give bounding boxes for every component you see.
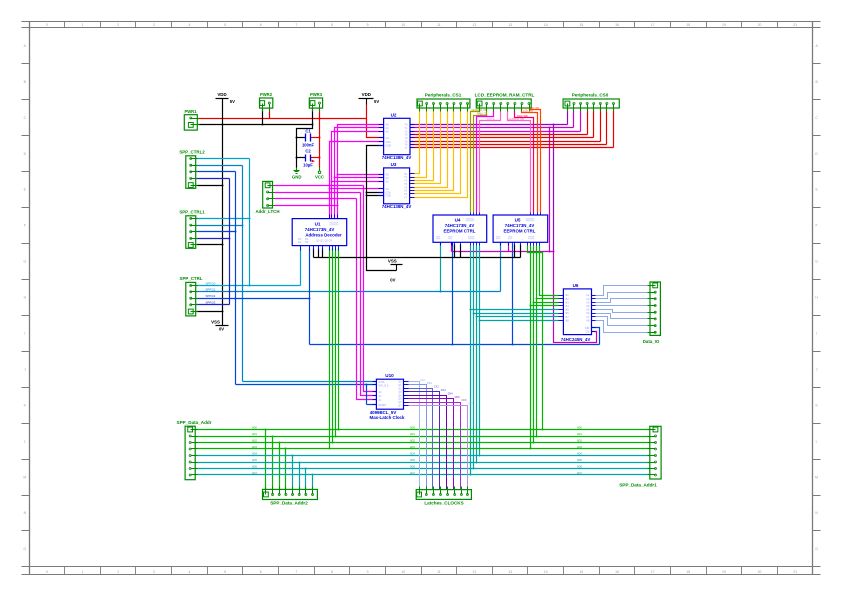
- svg-text:Data_IO: Data_IO: [643, 339, 660, 344]
- svg-text:8: 8: [331, 570, 333, 574]
- svg-text:SPPCl3: SPPCl3: [206, 301, 216, 305]
- svg-text:9: 9: [367, 23, 369, 27]
- svg-text:12: 12: [473, 570, 477, 574]
- svg-text:11: 11: [437, 570, 441, 574]
- svg-text:U1: U1: [315, 222, 321, 227]
- svg-text:F: F: [816, 224, 818, 228]
- svg-text:C1: C1: [305, 128, 311, 133]
- power VDD right: [359, 92, 380, 105]
- wire purple row Y0: [411, 109, 568, 252]
- op-amp U1 74HC173N_4V Address Decoder: [292, 215, 347, 251]
- svg-text:SPP_Data_Addr1: SPP_Data_Addr1: [619, 483, 657, 488]
- wire pink LCD pin4: [480, 109, 501, 213]
- svg-text:AD6: AD6: [410, 466, 415, 469]
- svg-text:D3: D3: [305, 240, 309, 244]
- wire teal U4 data verticals: [470, 246, 559, 476]
- wire crimson LCD pin6: [515, 109, 534, 213]
- svg-text:AD5: AD5: [577, 459, 582, 462]
- svg-text:▒▒▒▒: ▒▒▒▒: [466, 218, 475, 222]
- svg-text:74HC245N_4V: 74HC245N_4V: [561, 337, 591, 342]
- svg-text:12: 12: [473, 23, 477, 27]
- svg-text:LCD_RS: LCD_RS: [530, 107, 540, 110]
- svg-text:74HC173N_4V: 74HC173N_4V: [445, 223, 475, 228]
- svg-text:AD7: AD7: [577, 472, 582, 475]
- svg-text:21: 21: [793, 23, 797, 27]
- wire PWR3 black leg: [312, 109, 314, 125]
- connector PWR2: [260, 92, 273, 111]
- svg-text:SPPCl0: SPPCl0: [206, 281, 216, 285]
- svg-text:G: G: [23, 260, 26, 264]
- svg-text:G1: G1: [386, 136, 390, 140]
- svg-text:VSS: VSS: [211, 320, 220, 325]
- wire magenta row Y2: [411, 109, 581, 132]
- svg-text:G2B: G2B: [386, 194, 391, 198]
- svg-text:SPP_Data_Addr: SPP_Data_Addr: [177, 420, 212, 425]
- svg-text:U4: U4: [455, 218, 461, 223]
- svg-text:74HC173N_4V: 74HC173N_4V: [305, 227, 335, 232]
- decoder U2 74HC138N_4V: [379, 112, 415, 160]
- svg-text:F: F: [24, 224, 26, 228]
- svg-text:100nF: 100nF: [302, 143, 315, 148]
- capacitor C1 100nF: [302, 128, 315, 147]
- svg-text:21: 21: [793, 570, 797, 574]
- svg-text:AD2: AD2: [577, 440, 582, 443]
- svg-text:B5: B5: [566, 308, 570, 312]
- svg-text:AD0: AD0: [252, 427, 257, 430]
- connector SPP_Data_Addr1: [619, 426, 661, 487]
- wire black U2 U3 enable: [366, 146, 384, 259]
- connector Data_IO: [643, 282, 661, 344]
- connector SPP_CTRL2: [179, 149, 205, 188]
- svg-text:EEPROM_WR: EEPROM_WR: [509, 118, 525, 121]
- svg-text:U5: U5: [515, 218, 521, 223]
- svg-text:LCD_CS: LCD_CS: [478, 114, 488, 117]
- svg-text:SPPCl1: SPPCl1: [206, 288, 216, 292]
- svg-text:LCD_RW: LCD_RW: [523, 110, 534, 113]
- svg-text:B1: B1: [566, 293, 570, 297]
- svg-text:AD6: AD6: [577, 466, 582, 469]
- svg-text:A3: A3: [586, 300, 590, 304]
- wire olive LCD pin2: [474, 109, 487, 213]
- svg-text:B3: B3: [566, 300, 570, 304]
- wire olive LCD pin1: [471, 109, 480, 213]
- svg-text:6: 6: [260, 23, 262, 27]
- connector SPP_CTRL1: [179, 209, 205, 248]
- wire black ground bus: [314, 245, 521, 271]
- svg-text:5: 5: [224, 23, 226, 27]
- svg-text:19: 19: [722, 570, 726, 574]
- wire SPP_CTRL pin2 row to U4 U5: [197, 243, 501, 293]
- wire U6 to Data_IO bus: [592, 286, 651, 333]
- svg-text:EEPROM CTRL: EEPROM CTRL: [444, 229, 476, 234]
- svg-text:I: I: [816, 331, 817, 335]
- svg-text:A1: A1: [386, 176, 390, 180]
- wire dark magenta row Y1 and U4-U5 link: [411, 109, 574, 253]
- svg-text:U2: U2: [391, 112, 397, 117]
- svg-text:RESET: RESET: [379, 404, 388, 407]
- svg-text:CK7: CK7: [468, 403, 473, 406]
- svg-text:17: 17: [651, 23, 655, 27]
- svg-text:A2: A2: [586, 297, 590, 301]
- svg-text:Address Decoder: Address Decoder: [305, 232, 342, 237]
- svg-text:AD4: AD4: [410, 453, 415, 456]
- power VSS middle: [388, 258, 403, 282]
- transceiver U6 74HC245N_4V: [559, 283, 596, 342]
- connector LCD_EEPROM_RAM_CTRL: [475, 92, 535, 111]
- svg-text:Peripherals_CS0: Peripherals_CS0: [572, 92, 609, 97]
- svg-text:AD0: AD0: [577, 427, 582, 430]
- wire green U1 address drops: [329, 249, 340, 450]
- svg-text:18: 18: [686, 570, 690, 574]
- svg-text:Peripherals_CS1: Peripherals_CS1: [425, 92, 462, 97]
- svg-text:I: I: [24, 331, 25, 335]
- svg-text:EEPROM CTRL: EEPROM CTRL: [504, 229, 536, 234]
- svg-text:13: 13: [508, 570, 512, 574]
- wire PWR1 pin1 red: [198, 118, 367, 120]
- svg-text:CK3: CK3: [441, 389, 446, 392]
- svg-text:4: 4: [188, 23, 190, 27]
- svg-text:A6: A6: [586, 311, 590, 315]
- svg-text:A5: A5: [586, 308, 590, 312]
- power VDD left: [216, 92, 236, 104]
- svg-text:13: 13: [508, 23, 512, 27]
- latch U10 4099BCL_5V Max-Latch Clock: [370, 373, 409, 420]
- svg-text:LCD_E: LCD_E: [487, 118, 495, 121]
- wire U10 blue branch: [366, 384, 377, 405]
- svg-text:5: 5: [224, 570, 226, 574]
- wire magenta to U6 OE: [554, 252, 597, 343]
- svg-text:14: 14: [544, 570, 548, 574]
- svg-text:SPP_Data_Addr2: SPP_Data_Addr2: [270, 500, 308, 505]
- svg-text:U6: U6: [573, 283, 579, 288]
- svg-text:RAM_WR: RAM_WR: [517, 115, 528, 118]
- wire green AD0-AD3 rows: [196, 429, 650, 490]
- svg-text:SPPCl2: SPPCl2: [206, 294, 216, 298]
- svg-text:VDD: VDD: [362, 92, 371, 97]
- svg-text:GND: GND: [292, 174, 302, 179]
- latch U5 74HC173N_4V EEPROM CTRL: [493, 213, 548, 246]
- svg-text:16: 16: [615, 23, 619, 27]
- power VCC symbol: [315, 168, 324, 180]
- svg-text:AD7: AD7: [252, 472, 257, 475]
- svg-text:1: 1: [82, 23, 84, 27]
- svg-text:G1: G1: [386, 187, 390, 191]
- svg-text:PWR3: PWR3: [310, 92, 323, 97]
- svg-text:..: ..: [461, 237, 463, 241]
- wire magenta verticals to U1 and U2 U3: [329, 125, 384, 219]
- svg-text:4: 4: [188, 570, 190, 574]
- svg-text:B2: B2: [566, 297, 570, 301]
- wire VDD black bus: [198, 124, 313, 126]
- svg-text:A8: A8: [586, 318, 590, 322]
- svg-text:O: O: [23, 547, 26, 551]
- svg-text:Y7: Y7: [404, 195, 408, 199]
- svg-text:CK6: CK6: [462, 399, 467, 402]
- connector Latches_CLOCKS: [416, 487, 471, 506]
- svg-text:DIR: DIR: [585, 326, 590, 330]
- power VSS bottom left: [211, 320, 228, 332]
- svg-text:AD0: AD0: [410, 427, 415, 430]
- wire blue U1 to U6 DIR: [309, 243, 600, 346]
- wire PWR3 red leg / VCC rail: [319, 109, 321, 168]
- wire teal AD4-AD7 rows: [196, 455, 650, 490]
- wire pink LCD pin5: [508, 109, 531, 213]
- svg-text:Q0 Q1 Q2 Q3: Q0 Q1 Q2 Q3: [316, 239, 333, 243]
- svg-text:A1: A1: [586, 293, 590, 297]
- svg-text:PWR2: PWR2: [260, 92, 273, 97]
- svg-text:SPP_CTRL1: SPP_CTRL1: [179, 209, 205, 214]
- svg-text:CK4: CK4: [448, 392, 453, 395]
- svg-text:CK0: CK0: [420, 379, 425, 382]
- wire orange LCD pin7: [522, 109, 538, 213]
- svg-text:M: M: [815, 475, 818, 479]
- svg-text:A7: A7: [586, 315, 590, 319]
- wire dark blue SPP chain: [197, 179, 231, 305]
- svg-text:B4: B4: [566, 304, 570, 308]
- svg-text:A4: A4: [586, 304, 590, 308]
- svg-text:7: 7: [295, 23, 297, 27]
- svg-text:AD2: AD2: [410, 440, 415, 443]
- svg-text:19: 19: [722, 23, 726, 27]
- svg-text:9: 9: [367, 570, 369, 574]
- connector Peripherals_CS1: [417, 92, 470, 111]
- svg-text:2: 2: [117, 23, 119, 27]
- svg-text:G: G: [815, 260, 818, 264]
- node SPP net labels: [206, 281, 216, 304]
- svg-text:CK2: CK2: [434, 386, 439, 389]
- wire C2 leads: [297, 157, 320, 159]
- svg-text:D2: D2: [298, 240, 302, 244]
- svg-text:6: 6: [260, 570, 262, 574]
- svg-text:3: 3: [153, 23, 155, 27]
- svg-text:AD6: AD6: [252, 466, 257, 469]
- svg-text:AD1: AD1: [410, 433, 415, 436]
- connector PWR3: [309, 92, 322, 111]
- wire magenta LCD pin3: [477, 109, 494, 213]
- decoder U3 74HC138N_4V: [379, 162, 415, 209]
- connector SPP_Data_Addr: [177, 420, 212, 480]
- svg-text:AD7: AD7: [410, 472, 415, 475]
- svg-text:14: 14: [544, 23, 548, 27]
- svg-text:AD3: AD3: [577, 446, 582, 449]
- svg-text:B8: B8: [566, 318, 570, 322]
- svg-text:G2A: G2A: [386, 140, 391, 144]
- svg-text:0: 0: [46, 570, 48, 574]
- svg-text:A2: A2: [386, 129, 390, 133]
- svg-text:15: 15: [580, 23, 584, 27]
- svg-text:Max-Latch Clock: Max-Latch Clock: [370, 415, 405, 420]
- node AD net labels left: [252, 427, 582, 476]
- svg-text:▒▒▒: ▒▒▒: [468, 236, 475, 240]
- svg-text:SPP_CTRL: SPP_CTRL: [180, 276, 203, 281]
- wire C1 leads: [297, 137, 320, 139]
- wire medium blue SPP chain: [197, 166, 377, 382]
- wire black SPP pin5 rows: [197, 124, 264, 313]
- svg-text:CK5: CK5: [455, 396, 460, 399]
- svg-text:WR_CLK: WR_CLK: [379, 384, 389, 387]
- wire PWR2 black leg: [262, 109, 264, 125]
- wire magenta drops to U10: [357, 186, 377, 400]
- connector SPP_CTRL: [180, 276, 203, 316]
- svg-text:B6: B6: [566, 311, 570, 315]
- wire yellow Peripherals_CS1 to U3: [410, 109, 468, 198]
- svg-text:L: L: [24, 439, 26, 443]
- wire orange LCD pin8: [530, 109, 541, 213]
- svg-text:5V: 5V: [374, 99, 379, 104]
- svg-text:0V: 0V: [390, 277, 395, 282]
- svg-text:G2B: G2B: [386, 143, 391, 147]
- svg-text:VDD: VDD: [217, 92, 226, 97]
- power GND symbol: [292, 168, 302, 180]
- wire green U5 data verticals: [528, 246, 559, 450]
- svg-text:AD4: AD4: [577, 453, 582, 456]
- svg-text:10: 10: [401, 570, 405, 574]
- svg-text:O: O: [815, 547, 818, 551]
- svg-text:Latches_CLOCKS: Latches_CLOCKS: [424, 500, 463, 505]
- svg-text:AD3: AD3: [252, 446, 257, 449]
- wire VDD2 red stem to U2: [367, 105, 384, 138]
- svg-text:AD5: AD5: [410, 459, 415, 462]
- svg-text:74HC138N_4V: 74HC138N_4V: [382, 155, 412, 160]
- svg-text:15: 15: [580, 570, 584, 574]
- wire main black vertical to VSS: [222, 125, 224, 326]
- wire cyan SPP chain: [197, 159, 301, 287]
- svg-text:11: 11: [437, 23, 441, 27]
- wire VDD1 stem: [222, 99, 224, 125]
- svg-text:J: J: [24, 367, 26, 371]
- wire blue SPP chain: [197, 172, 377, 385]
- connector Addr_LTCH: [255, 181, 279, 214]
- svg-text:AD5: AD5: [252, 459, 257, 462]
- wire cap rail black: [296, 124, 314, 168]
- svg-text:VSS: VSS: [388, 258, 397, 263]
- node LCD ctrl net labels: [472, 107, 540, 121]
- svg-text:20: 20: [758, 570, 762, 574]
- connector Peripherals_CS0: [563, 92, 619, 111]
- svg-text:2: 2: [117, 570, 119, 574]
- svg-text:1: 1: [82, 570, 84, 574]
- svg-text:AD1: AD1: [577, 433, 582, 436]
- svg-text:L: L: [816, 439, 818, 443]
- svg-text:0V: 0V: [219, 327, 224, 332]
- svg-text:VCC: VCC: [315, 174, 324, 179]
- svg-text:C2: C2: [305, 149, 311, 154]
- svg-text:17: 17: [651, 570, 655, 574]
- capacitor C2 10uF: [303, 149, 315, 168]
- svg-text:B7: B7: [566, 315, 570, 319]
- svg-text:CK1: CK1: [427, 382, 432, 385]
- svg-text:7: 7: [295, 570, 297, 574]
- svg-text:AD3: AD3: [410, 446, 415, 449]
- svg-text:AD1: AD1: [252, 433, 257, 436]
- svg-text:A2: A2: [386, 179, 390, 183]
- svg-text:..: ..: [521, 237, 523, 241]
- wire U10 clock outputs: [404, 382, 468, 490]
- svg-text:Addr_LTCH: Addr_LTCH: [255, 209, 279, 214]
- svg-text:20: 20: [758, 23, 762, 27]
- svg-text:10µF: 10µF: [303, 163, 313, 168]
- svg-text:▒▒▒▒: ▒▒▒▒: [329, 222, 339, 226]
- svg-text:PWR1: PWR1: [184, 109, 197, 114]
- svg-text:0: 0: [46, 23, 48, 27]
- svg-text:▒▒▒▒: ▒▒▒▒: [526, 218, 535, 222]
- connector PWR1: [184, 109, 199, 130]
- latch U4 74HC173N_4V EEPROM CTRL: [433, 213, 487, 246]
- svg-text:3: 3: [153, 570, 155, 574]
- svg-text:U3: U3: [391, 162, 397, 167]
- svg-text:U10: U10: [385, 373, 394, 378]
- svg-text:OE: OE: [586, 330, 590, 334]
- svg-text:Y7: Y7: [404, 146, 408, 150]
- connector SPP_Data_Addr2: [263, 487, 318, 506]
- svg-text:8: 8: [331, 23, 333, 27]
- svg-text:10: 10: [401, 23, 405, 27]
- svg-text:AD2: AD2: [252, 440, 257, 443]
- svg-text:5V: 5V: [230, 99, 235, 104]
- svg-text:74HC173N_4V: 74HC173N_4V: [505, 223, 535, 228]
- svg-text:18: 18: [686, 23, 690, 27]
- svg-text:M: M: [23, 475, 26, 479]
- svg-text:LCD_EEPROM_RAM_CTRL: LCD_EEPROM_RAM_CTRL: [475, 92, 535, 97]
- svg-text:AD4: AD4: [252, 453, 257, 456]
- svg-text:74HC138N_4V: 74HC138N_4V: [382, 204, 412, 209]
- svg-text:J: J: [816, 367, 818, 371]
- svg-text:▒▒▒: ▒▒▒: [528, 236, 535, 240]
- wire magenta Addr_LTCH rows: [275, 186, 364, 206]
- node CK net labels: [420, 379, 474, 406]
- svg-text:16: 16: [615, 570, 619, 574]
- wire red rows Y3-Y7: [411, 109, 614, 148]
- wire PWR2 red leg: [269, 109, 271, 119]
- svg-text:A0: A0: [386, 123, 390, 127]
- svg-text:SPP_CTRL2: SPP_CTRL2: [179, 149, 205, 154]
